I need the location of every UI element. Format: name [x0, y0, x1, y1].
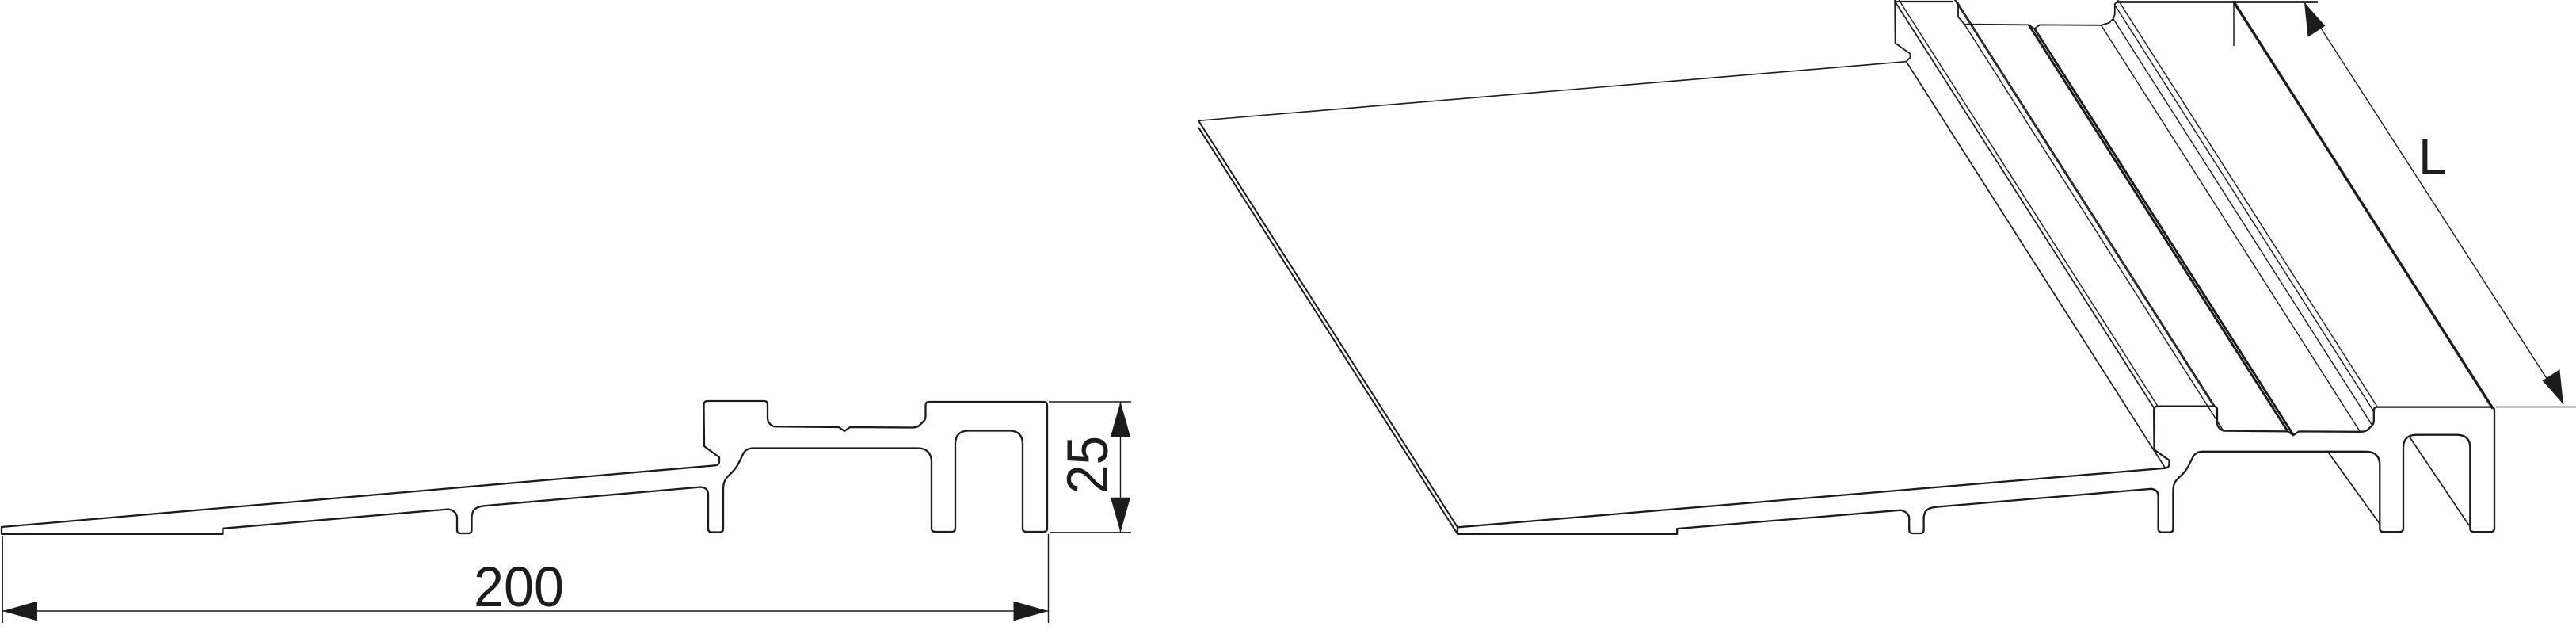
3D view: tab2 left top edges — [2113, 19, 2372, 426]
3D view: near cross-section face outline — [1458, 407, 2494, 534]
dimension 200: arrowhead right — [1014, 602, 1049, 621]
3D view: V-groove edges (dark) — [2029, 25, 2288, 431]
dimension 200: extension line left — [2, 536, 3, 623]
svg-text:200: 200 — [474, 556, 564, 619]
3D view: channel floor left edge — [1964, 25, 2224, 431]
3D view: tip edge (double line) — [1198, 120, 1458, 527]
3D view: far right wall edge tick — [2233, 1, 2235, 46]
dimension 25: extension line top — [1049, 401, 1131, 403]
3D view: far end channel floor edge with V-notch — [1955, 0, 2119, 29]
3D view: tab1 left top edge — [1895, 2, 2154, 408]
3D view: tab2 right top edge (heavy) — [2234, 2, 2493, 409]
dimension 200: arrowhead left — [2, 602, 37, 621]
dimension 25: extension line bottom — [1050, 532, 1131, 533]
3D view: tab1 right top edge — [1955, 0, 2214, 407]
dimension 25: dimension line — [1120, 402, 1122, 533]
dimension 25: arrowhead up — [1111, 402, 1130, 437]
3D view: far end beak and tab1 wall edge — [1895, 0, 1910, 62]
2D cross-section outline of ramp profile — [2, 401, 1047, 534]
3D view: channel floor right edge — [2102, 25, 2361, 432]
3D view: far top edge of tab1 — [1895, 1, 1953, 2]
dimension L: dimension line — [2304, 2, 2563, 404]
3D view: far end plate top edge — [1198, 62, 1907, 121]
3D view: diagonal inside under-web opening — [2327, 451, 2380, 525]
3D view: plate/block junction edge (beak base) — [1907, 62, 2166, 468]
dimension L: extension line bottom (near top edge prolongation) — [2496, 407, 2576, 408]
dimension L: arrowhead top — [2304, 2, 2325, 37]
svg-text:L: L — [2418, 128, 2447, 185]
3D view: far top edge of tab2 + extension to L dim — [2117, 1, 2318, 3]
dimension 200: extension line right — [1048, 534, 1050, 623]
dimension L: arrowhead bottom — [2543, 369, 2563, 404]
3D view: diagonal inside U channel opening — [2409, 436, 2469, 525]
dimension 200: dimension line — [2, 610, 1048, 612]
dimension 25: arrowhead down — [1111, 498, 1130, 533]
svg-text:25: 25 — [1056, 436, 1120, 494]
